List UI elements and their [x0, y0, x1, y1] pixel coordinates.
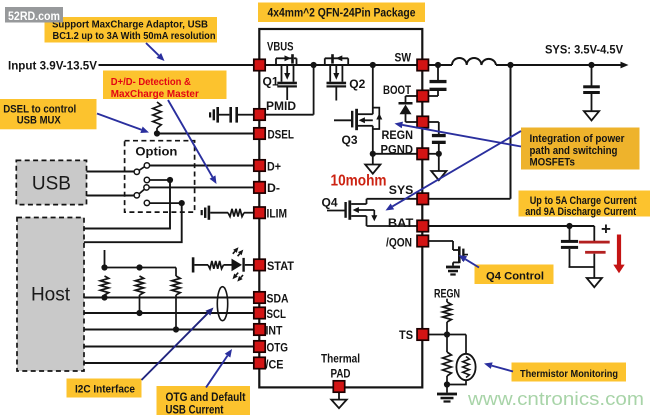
svg-text:VBUS: VBUS [267, 40, 294, 54]
svg-text:TS: TS [399, 328, 413, 342]
svg-text:Thermal: Thermal [321, 354, 360, 366]
svg-text:ILIM: ILIM [267, 207, 288, 221]
svg-text:PMID: PMID [266, 99, 296, 113]
svg-text:Input 3.9V-13.5V: Input 3.9V-13.5V [8, 59, 97, 73]
svg-text:Q2: Q2 [349, 77, 365, 91]
svg-text:USB MUX: USB MUX [17, 114, 62, 126]
svg-text:Thermistor Monitoring: Thermistor Monitoring [520, 368, 618, 380]
svg-text:OTG: OTG [267, 341, 289, 355]
svg-text:REGN: REGN [382, 128, 414, 142]
svg-text:D+/D- Detection &: D+/D- Detection & [111, 76, 191, 88]
svg-text:OTG and Default: OTG and Default [166, 392, 246, 404]
svg-text:SYS: SYS [389, 183, 414, 197]
svg-text:+: + [601, 220, 611, 239]
svg-text:Q4 Control: Q4 Control [486, 271, 544, 283]
svg-text:www.cntronics.com: www.cntronics.com [467, 389, 644, 409]
svg-text:D-: D- [267, 181, 280, 195]
svg-text:MOSFETs: MOSFETs [530, 156, 576, 168]
svg-text:Integration of power: Integration of power [530, 133, 626, 145]
svg-text:REGN: REGN [434, 287, 460, 301]
svg-text:SYS: 3.5V-4.5V: SYS: 3.5V-4.5V [545, 43, 623, 57]
svg-text:Option: Option [135, 144, 177, 158]
svg-text:Support MaxCharge Adaptor, USB: Support MaxCharge Adaptor, USB [52, 18, 208, 30]
svg-text:10mohm: 10mohm [331, 173, 387, 190]
svg-text:Host: Host [31, 285, 71, 306]
svg-text:52RD.com: 52RD.com [8, 9, 60, 23]
svg-text:BOOT: BOOT [383, 83, 412, 97]
svg-text:Q4: Q4 [322, 196, 338, 210]
svg-text:D+: D+ [267, 160, 281, 174]
svg-text:and 9A Discharge Current: and 9A Discharge Current [525, 206, 636, 218]
svg-text:SDA: SDA [267, 292, 289, 306]
svg-text:Q1: Q1 [263, 75, 279, 89]
svg-text:USB Current: USB Current [166, 404, 224, 415]
svg-text:4x4mm^2 QFN-24Pin Package: 4x4mm^2 QFN-24Pin Package [268, 6, 416, 20]
svg-text:STAT: STAT [267, 259, 295, 273]
svg-text:BC1.2 up to 3A With 50mA resol: BC1.2 up to 3A With 50mA resolution [53, 30, 216, 42]
svg-text:SCL: SCL [267, 307, 287, 321]
svg-text:MaxCharge Master: MaxCharge Master [111, 88, 199, 100]
svg-text:/QON: /QON [386, 236, 412, 250]
svg-text:PAD: PAD [331, 369, 351, 381]
svg-text:DSEL: DSEL [268, 128, 295, 142]
svg-text:Q3: Q3 [342, 133, 358, 147]
svg-text:INT: INT [266, 324, 284, 338]
svg-text:I2C Interface: I2C Interface [75, 383, 135, 395]
svg-text:SW: SW [395, 51, 412, 65]
svg-text:BAT: BAT [388, 216, 414, 230]
svg-text:path and switching: path and switching [530, 145, 618, 157]
svg-text:PGND: PGND [381, 143, 414, 157]
svg-text:/CE: /CE [266, 358, 284, 372]
svg-text:USB: USB [32, 174, 71, 195]
